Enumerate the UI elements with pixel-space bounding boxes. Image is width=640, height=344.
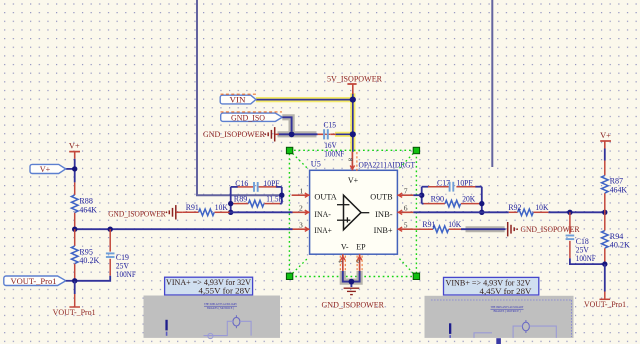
wire INA-: [230, 211, 293, 213]
wire VOUT- stub down: [69, 281, 80, 307]
junction feedback-left on INA- wire: [228, 210, 233, 215]
resistor R94: [602, 212, 631, 264]
resistor R91 (right): [413, 220, 462, 233]
wire V-/EP to ground (selected, grey glow): [343, 271, 360, 287]
capacitor C18: [566, 212, 597, 263]
svg-text:INA-: INA-: [314, 210, 331, 219]
text box VINA+ note: [165, 277, 253, 295]
dimmed block fragment bottom: [496, 338, 501, 344]
svg-text:10K: 10K: [535, 203, 548, 212]
wire VOUT stub down (right): [600, 264, 611, 299]
orange selection marks V-/EP pins: [340, 256, 362, 273]
capacitor C17: [428, 179, 476, 192]
pin 1 OUTA: [292, 186, 310, 197]
pin name OUTA: [314, 193, 337, 202]
wire OUTA riser (long vertical + horizontal to feedback node): [197, 0, 282, 195]
svg-text:V-: V-: [341, 242, 349, 251]
svg-text:OPA2211AIDRGT: OPA2211AIDRGT: [359, 160, 416, 169]
port VIN: [220, 94, 257, 104]
pin name EP: [356, 242, 366, 251]
pin name INB+: [374, 226, 393, 235]
junction at VIN/5V riser: [350, 97, 356, 103]
svg-text:C15: C15: [324, 121, 337, 130]
svg-text:GND_ISO: GND_ISO: [231, 114, 265, 123]
junction feedback-right on INB- wire: [479, 210, 484, 215]
resistor R91 (left): [176, 203, 230, 215]
svg-text:U5: U5: [311, 160, 321, 169]
selection handle bottom-left: [286, 273, 292, 279]
svg-text:2: 2: [299, 203, 303, 212]
wire OUTB to feedback: [413, 194, 421, 196]
pin name V+: [348, 176, 359, 185]
svg-text:10K: 10K: [215, 203, 228, 212]
selection handle bottom-right: [413, 273, 419, 279]
resistor R90: [424, 194, 480, 207]
junction C18 top: [567, 210, 572, 215]
svg-text:V+: V+: [40, 165, 51, 174]
junction feedback-right R90 tap: [479, 201, 484, 206]
svg-text:VOUT-_Pro1: VOUT-_Pro1: [584, 300, 626, 309]
power port V+ (right): [600, 131, 611, 149]
svg-text:40.2K: 40.2K: [79, 256, 99, 265]
op-amp U5 body: [310, 170, 398, 254]
junction right divider mid: [602, 210, 607, 215]
svg-text:INA+: INA+: [314, 226, 332, 235]
svg-text:EP: EP: [356, 242, 366, 251]
pin 9 EP: [354, 254, 362, 271]
junction divider bottom left: [72, 278, 77, 283]
svg-text:3: 3: [299, 220, 303, 229]
pin 2 INA-: [292, 203, 310, 214]
pin name INA-: [314, 210, 331, 219]
wire GND_ISO to ground row: [282, 117, 291, 134]
pin 7 OUTB: [397, 186, 413, 197]
power port V+ (left): [69, 142, 80, 159]
junction left divider mid: [72, 227, 77, 232]
capacitor C19: [106, 229, 136, 279]
svg-text:BRAKES ( MOTRICE ): BRAKES ( MOTRICE ): [494, 309, 521, 313]
svg-text:R95: R95: [79, 247, 93, 256]
svg-text:10PF: 10PF: [457, 179, 474, 188]
svg-text:C16: C16: [235, 179, 248, 188]
svg-text:V+: V+: [69, 142, 80, 151]
wire VIN 5V_ISOPOWER net (yellow highlighted): [256, 93, 353, 151]
wire GND_ISOPOWER row to C15: [278, 131, 318, 137]
svg-text:4,45V for 28V: 4,45V for 28V: [480, 286, 533, 296]
power port GND_ISOPOWER (INB+ row): [508, 222, 580, 236]
svg-text:R89: R89: [234, 194, 248, 203]
svg-text:R91: R91: [422, 220, 435, 229]
svg-text:GND_ISOPOWER: GND_ISOPOWER: [108, 208, 166, 218]
svg-text:R88: R88: [79, 197, 93, 206]
pin 5 INB+: [397, 220, 413, 231]
pin 6 INB-: [397, 203, 413, 214]
svg-text:10PF: 10PF: [264, 179, 281, 188]
wire feedback box left (C16/R89 frame): [231, 187, 282, 212]
svg-text:5: 5: [404, 220, 408, 229]
svg-text:464K: 464K: [610, 185, 628, 194]
svg-text:R94: R94: [610, 232, 624, 241]
wire feedback box right (C17/R90 frame): [422, 187, 482, 213]
port GND_ISO: [221, 112, 283, 123]
capacitor C16: [235, 179, 280, 192]
junction feedback-left R89 tap: [228, 201, 233, 206]
designator U5: [311, 160, 321, 169]
dimmed sheet block (left): [144, 296, 281, 339]
resistor R88: [71, 182, 97, 229]
pin name INB-: [375, 210, 393, 219]
resistor R95: [71, 229, 99, 281]
svg-text:BRAKES ( MOTRICE ): BRAKES ( MOTRICE ): [207, 306, 234, 310]
power port GND_ISOPOWER (INA- row): [108, 205, 176, 219]
svg-text:20K: 20K: [462, 194, 475, 203]
svg-text:GND_ISOPOWER: GND_ISOPOWER: [203, 129, 265, 139]
junction C19 top: [108, 227, 113, 232]
pin name OUTB: [370, 193, 392, 202]
wire INA+: [75, 228, 293, 230]
svg-text:10K: 10K: [448, 220, 461, 229]
selection handle top-right: [413, 147, 419, 153]
wire INB+ to ground (selected, grey glow): [461, 226, 506, 232]
svg-text:100NF: 100NF: [576, 254, 596, 263]
svg-text:GND_ISOPOWER: GND_ISOPOWER: [322, 299, 385, 309]
svg-text:C17: C17: [437, 179, 450, 188]
junction feedback-left top tap: [279, 193, 284, 198]
wire V+ to R87: [604, 149, 606, 161]
port VOUT-_Pro1: [4, 276, 66, 286]
net label VOUT-_Pro1 (right): [584, 300, 626, 309]
svg-text:V+: V+: [348, 176, 359, 185]
svg-text:VOUT-_Pro1: VOUT-_Pro1: [53, 308, 96, 317]
capacitor C15: [318, 121, 345, 159]
svg-text:V+: V+: [600, 131, 611, 140]
svg-text:5V_ISOPOWER: 5V_ISOPOWER: [327, 73, 382, 83]
pin name V-: [341, 242, 349, 251]
svg-text:6: 6: [404, 203, 408, 212]
svg-text:INB+: INB+: [374, 226, 393, 235]
selection box (green dashed) around U5: [289, 150, 416, 276]
wire INB-: [413, 211, 604, 213]
svg-text:OUTA: OUTA: [314, 193, 337, 202]
svg-text:VIN: VIN: [230, 95, 246, 104]
svg-text:R87: R87: [610, 177, 624, 186]
junction V+ node: [72, 166, 77, 171]
svg-text:VOUT-_Pro1: VOUT-_Pro1: [11, 277, 57, 286]
wire C19 bottom to divider: [75, 276, 111, 281]
resistor R89: [233, 194, 284, 207]
svg-text:R91: R91: [186, 203, 199, 212]
resistor R92: [508, 203, 548, 215]
wire C18 bottom to divider: [570, 258, 605, 264]
dimmed sheet block (right): [425, 296, 574, 338]
value OPA2211AIDRGT: [359, 160, 416, 169]
wire port to divider bottom: [66, 280, 75, 282]
svg-text:40.2K: 40.2K: [610, 241, 630, 250]
svg-text:OUTB: OUTB: [370, 193, 392, 202]
pin 3 INA+: [292, 220, 310, 231]
power port 5V_ISOPOWER: [327, 73, 382, 94]
junction at C15/5V riser: [350, 131, 356, 137]
power port GND_ISOPOWER (top row): [203, 127, 279, 141]
svg-text:R92: R92: [508, 203, 521, 212]
wire V+ to R88: [66, 159, 75, 183]
ground GND_ISOPOWER (below U5): [322, 288, 385, 309]
junction V-/EP ground node: [349, 279, 355, 285]
svg-text:7: 7: [404, 186, 408, 195]
svg-text:GND_ISOPOWER: GND_ISOPOWER: [521, 224, 580, 234]
svg-text:1: 1: [300, 186, 304, 195]
svg-text:464K: 464K: [79, 205, 97, 214]
net label VOUT-_Pro1 (left): [53, 308, 96, 317]
op-amp triangle symbol: [337, 195, 369, 230]
svg-text:INB-: INB-: [375, 210, 393, 219]
junction GND_ISO wire on ground row: [289, 131, 295, 137]
pin name INA+: [314, 226, 332, 235]
junction divider bottom right: [602, 261, 607, 266]
svg-text:4,55V for 28V: 4,55V for 28V: [199, 286, 252, 296]
svg-text:100NF: 100NF: [116, 270, 136, 279]
resistor R87: [602, 161, 628, 213]
svg-text:R90: R90: [431, 194, 445, 203]
port V+: [30, 164, 66, 174]
pin 8 V+: [347, 152, 357, 172]
selection handle top-left: [286, 147, 292, 153]
text box VINB+ note: [444, 277, 539, 295]
wire vertical net stub right: [491, 0, 493, 167]
junction feedback-right pin7 tap: [419, 193, 424, 198]
pin 4 V-: [337, 254, 345, 271]
